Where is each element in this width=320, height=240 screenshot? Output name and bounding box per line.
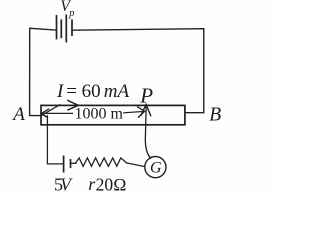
- resistor r zigzag: [76, 158, 127, 166]
- 1000 m span arrow right head: [137, 107, 144, 118]
- svg-text:p: p: [68, 8, 74, 19]
- current direction arrowhead on bar top edge: [67, 100, 78, 110]
- potentiometer wire bar A-B: [41, 105, 185, 124]
- svg-text:B: B: [209, 104, 221, 125]
- label 5V: [54, 175, 73, 195]
- battery 5V plates: [64, 156, 71, 171]
- label I = 60 mA: [56, 81, 130, 102]
- lead from 5V battery to resistor: [71, 162, 76, 164]
- label r 20ohm: [88, 174, 126, 194]
- svg-text:I: I: [56, 81, 65, 102]
- svg-text:G: G: [150, 160, 162, 177]
- wire top-right from battery to corner down to bar right end: [72, 29, 204, 113]
- svg-text:A: A: [11, 104, 25, 125]
- wire top-left from battery to corner down to node A: [30, 28, 57, 115]
- svg-text:V: V: [60, 175, 73, 195]
- 1000 m span arrow left head: [41, 109, 49, 118]
- wire from node A down to 5V battery: [47, 116, 62, 164]
- label V_p: [60, 0, 74, 19]
- battery V_p plates: [57, 15, 73, 41]
- wire from resistor to galvanometer: [127, 163, 145, 167]
- diagonal stroke from node A corner: [41, 105, 59, 116]
- 1000 m span arrow right shaft: [124, 111, 144, 112]
- svg-text:= 60: = 60: [66, 81, 100, 102]
- 1000 m span arrow left shaft: [41, 112, 72, 114]
- svg-text:1000 m: 1000 m: [75, 106, 124, 123]
- svg-text:mA: mA: [104, 81, 130, 102]
- jockey arrowhead at P: [141, 105, 151, 117]
- svg-text:20Ω: 20Ω: [96, 175, 127, 195]
- jockey wire from galvanometer up to P: [145, 106, 150, 158]
- galvanometer G circle: [145, 157, 166, 178]
